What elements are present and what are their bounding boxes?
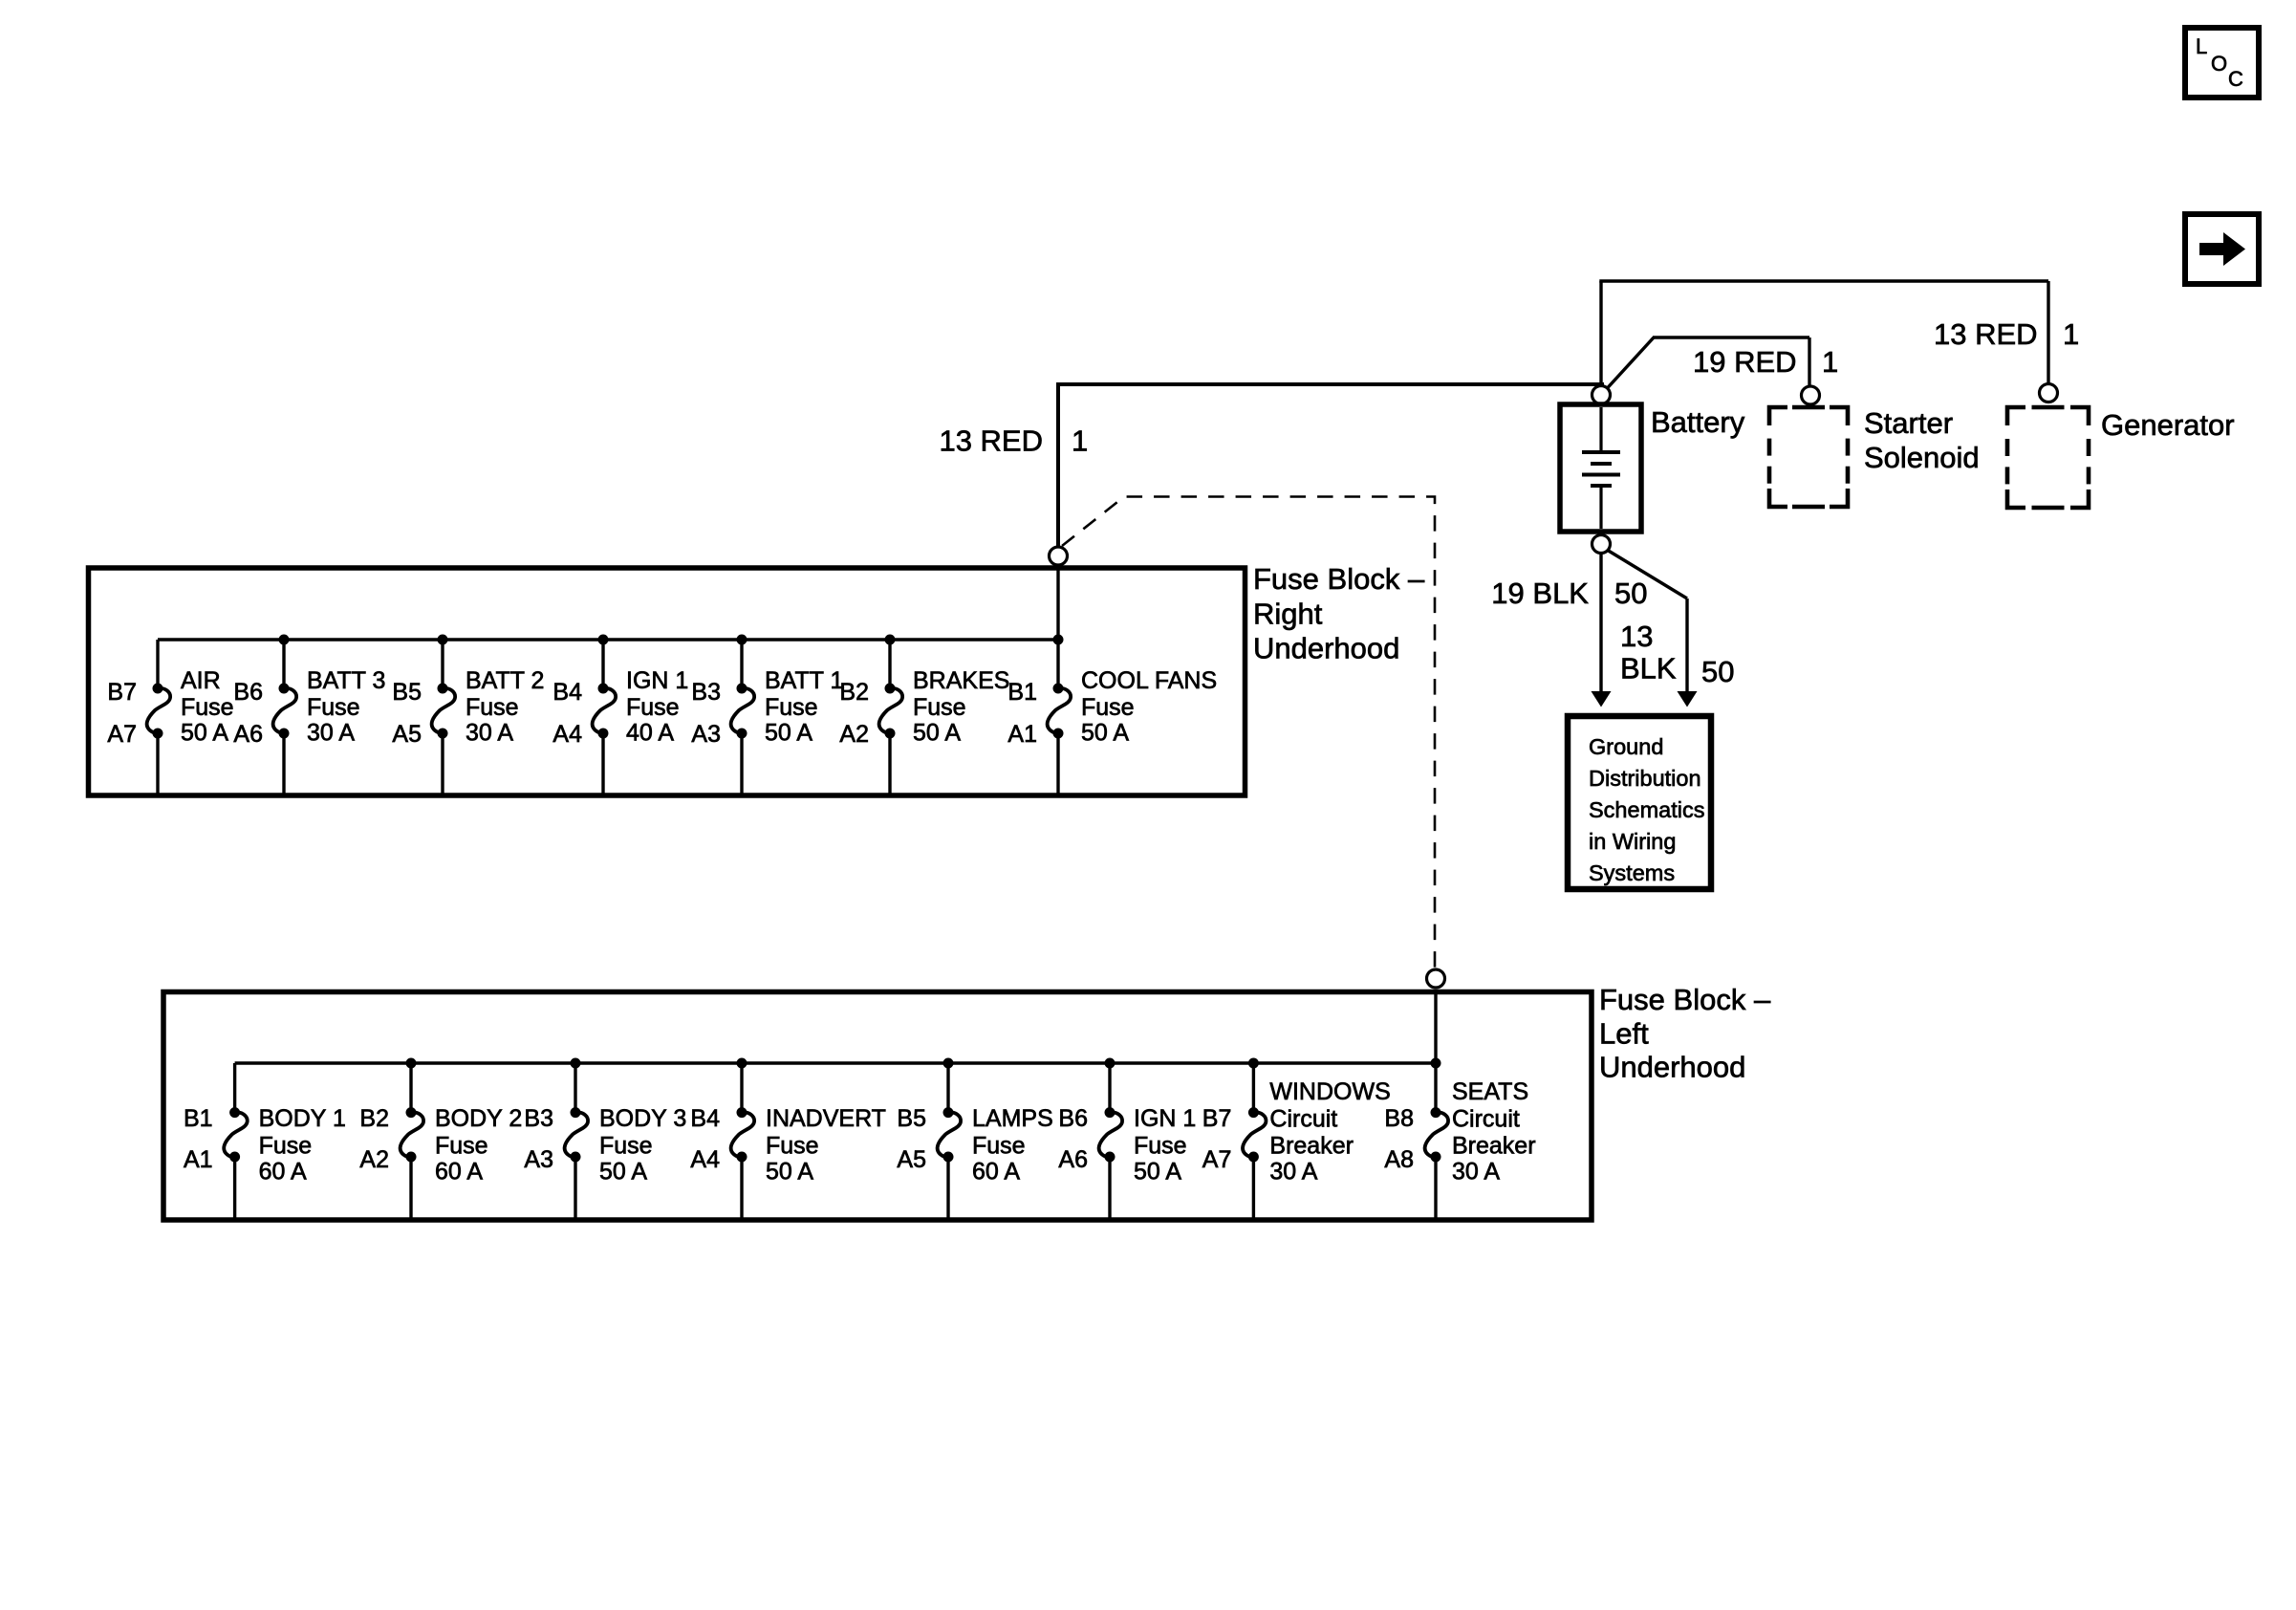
- svg-text:Schematics: Schematics: [1589, 797, 1704, 822]
- svg-text:BRAKES: BRAKES: [913, 667, 1009, 694]
- loc reference icon box: [2185, 28, 2259, 98]
- wire left block bus left drop: [233, 1063, 236, 1113]
- wire left block internal bus: [235, 1061, 1436, 1064]
- svg-text:A8: A8: [1384, 1146, 1414, 1173]
- fuse BATT 2 (B5/A5): [392, 635, 544, 794]
- wire right block internal bus: [158, 638, 1058, 641]
- svg-text:Fuse: Fuse: [599, 1133, 653, 1160]
- svg-text:50 A: 50 A: [765, 720, 812, 747]
- label ground distribution text: [1589, 734, 1704, 885]
- fuse BODY 1 (B1/A1): [184, 1105, 346, 1218]
- node generator terminal: [2040, 384, 2058, 402]
- battery symbol: [1582, 407, 1620, 529]
- svg-text:A1: A1: [1007, 721, 1037, 748]
- svg-text:Systems: Systems: [1589, 860, 1675, 885]
- label Generator: [2101, 408, 2235, 442]
- svg-text:50 A: 50 A: [766, 1159, 813, 1186]
- svg-text:1: 1: [2063, 317, 2079, 351]
- wire generator drop: [2047, 281, 2049, 383]
- svg-text:BODY 2: BODY 2: [435, 1105, 522, 1132]
- svg-text:Starter: Starter: [1864, 406, 1953, 440]
- svg-text:Underhood: Underhood: [1253, 632, 1399, 665]
- svg-text:BODY 3: BODY 3: [599, 1105, 686, 1132]
- svg-text:B1: B1: [1007, 679, 1037, 706]
- svg-text:Ground: Ground: [1589, 734, 1663, 759]
- fuse SEATS (B8/A8): [1384, 1058, 1535, 1219]
- svg-text:BLK: BLK: [1620, 652, 1677, 685]
- svg-text:1: 1: [1822, 345, 1838, 379]
- label 13 BLK 50: [1620, 620, 1734, 688]
- svg-text:50 A: 50 A: [1134, 1159, 1181, 1186]
- wire 13 BLK ground: [1685, 598, 1688, 692]
- svg-text:50: 50: [1614, 577, 1647, 610]
- svg-text:BODY 1: BODY 1: [259, 1105, 346, 1132]
- label Starter Solenoid: [1864, 406, 1980, 474]
- wire drop to right fuse block feed: [1056, 382, 1060, 547]
- svg-text:B5: B5: [392, 679, 422, 706]
- node left fuse block feed: [1427, 969, 1445, 988]
- svg-text:B2: B2: [839, 679, 869, 706]
- label 13 RED 1 (left): [939, 424, 1088, 458]
- wire right block feed drop: [1056, 566, 1059, 688]
- wire battery positive riser: [1599, 281, 1602, 385]
- svg-text:Right: Right: [1253, 597, 1323, 630]
- svg-text:30 A: 30 A: [1452, 1159, 1500, 1186]
- dashed link between fuse blocks: [1062, 497, 1435, 968]
- svg-text:30 A: 30 A: [1269, 1159, 1317, 1186]
- node battery positive terminal: [1592, 386, 1611, 404]
- svg-text:A6: A6: [1058, 1146, 1088, 1173]
- svg-text:B4: B4: [552, 679, 582, 706]
- svg-text:B6: B6: [1058, 1105, 1088, 1132]
- svg-text:Fuse: Fuse: [1081, 694, 1135, 721]
- svg-text:Circuit: Circuit: [1452, 1106, 1520, 1133]
- svg-text:1: 1: [1072, 424, 1088, 458]
- wire right block bus left drop: [156, 640, 159, 688]
- label Fuse Block Left Underhood: [1599, 983, 1771, 1084]
- svg-text:50 A: 50 A: [913, 720, 961, 747]
- svg-text:13: 13: [1620, 620, 1653, 653]
- svg-text:60 A: 60 A: [259, 1159, 307, 1186]
- wire 13 RED main bus to battery: [1058, 382, 1604, 386]
- wire battery to 19 RED diagonal: [1607, 337, 1654, 389]
- fuse BODY 2 (B2/A2): [359, 1058, 522, 1219]
- svg-text:A7: A7: [107, 721, 137, 748]
- wire 19 BLK ground: [1599, 554, 1602, 693]
- starter solenoid dashed box: [1769, 407, 1848, 507]
- svg-text:Fuse: Fuse: [766, 1133, 819, 1160]
- svg-text:INADVERT: INADVERT: [766, 1105, 886, 1132]
- label 19 BLK 50: [1491, 577, 1647, 610]
- fuse LAMPS (B5/A5): [897, 1058, 1052, 1219]
- svg-text:Fuse: Fuse: [913, 694, 966, 721]
- svg-text:COOL FANS: COOL FANS: [1081, 667, 1217, 694]
- svg-text:B7: B7: [107, 679, 137, 706]
- svg-text:AIR: AIR: [181, 667, 221, 694]
- battery box: [1560, 404, 1641, 532]
- svg-text:13 RED: 13 RED: [939, 424, 1043, 458]
- ground distribution schematics box: [1568, 716, 1711, 889]
- svg-text:in Wiring: in Wiring: [1589, 829, 1676, 854]
- wire starter solenoid drop: [1808, 337, 1810, 385]
- svg-text:A4: A4: [690, 1146, 720, 1173]
- fuse block right underhood box: [89, 568, 1245, 795]
- svg-text:Fuse: Fuse: [259, 1133, 313, 1160]
- arrow to ground schematics (19 BLK): [1592, 691, 1612, 707]
- svg-text:IGN 1: IGN 1: [1134, 1105, 1196, 1132]
- page navigation arrow box: [2185, 214, 2259, 284]
- label 19 RED 1: [1693, 345, 1838, 379]
- svg-text:Battery: Battery: [1651, 405, 1745, 439]
- svg-text:50 A: 50 A: [1081, 720, 1129, 747]
- svg-text:B2: B2: [359, 1105, 389, 1132]
- fuse BODY 3 (B3/A3): [524, 1058, 686, 1219]
- svg-text:Breaker: Breaker: [1452, 1133, 1536, 1160]
- svg-text:Fuse Block –: Fuse Block –: [1253, 562, 1425, 596]
- svg-text:Fuse: Fuse: [435, 1133, 488, 1160]
- label Battery: [1651, 405, 1745, 439]
- svg-text:A1: A1: [184, 1146, 213, 1173]
- svg-text:19 BLK: 19 BLK: [1491, 577, 1589, 610]
- svg-text:60 A: 60 A: [435, 1159, 483, 1186]
- svg-text:13 RED: 13 RED: [1934, 317, 2038, 351]
- node starter solenoid terminal: [1802, 386, 1820, 404]
- svg-text:50 A: 50 A: [181, 720, 228, 747]
- svg-text:Fuse: Fuse: [1134, 1133, 1187, 1160]
- fuse IGN 1 (B4/A4): [552, 635, 688, 794]
- wire left block feed drop: [1434, 991, 1437, 1113]
- wire 19 RED run: [1653, 336, 1809, 338]
- fuse WINDOWS (B7/A7): [1202, 1058, 1391, 1219]
- fuse BATT 1 (B3/A3): [691, 635, 843, 794]
- svg-text:O: O: [2211, 52, 2227, 76]
- svg-text:Fuse Block –: Fuse Block –: [1599, 983, 1771, 1016]
- wire top run to generator: [1599, 279, 2048, 282]
- fuse COOL FANS (B1/A1): [1007, 635, 1217, 794]
- svg-text:30 A: 30 A: [307, 720, 355, 747]
- svg-text:Generator: Generator: [2101, 408, 2235, 442]
- generator dashed box: [2007, 407, 2089, 508]
- wire 13 BLK diagonal: [1607, 550, 1687, 598]
- label Fuse Block Right Underhood: [1253, 562, 1425, 665]
- svg-text:LAMPS: LAMPS: [972, 1105, 1053, 1132]
- svg-text:BATT 1: BATT 1: [765, 667, 843, 694]
- svg-text:A3: A3: [691, 721, 721, 748]
- svg-text:19 RED: 19 RED: [1693, 345, 1797, 379]
- svg-text:Fuse: Fuse: [466, 694, 519, 721]
- svg-text:Circuit: Circuit: [1269, 1106, 1337, 1133]
- svg-text:SEATS: SEATS: [1452, 1078, 1528, 1105]
- fuse INADVERT (B4/A4): [690, 1058, 886, 1219]
- svg-text:Fuse: Fuse: [307, 694, 360, 721]
- svg-text:Fuse: Fuse: [972, 1133, 1026, 1160]
- fuse BATT 3 (B6/A6): [233, 635, 385, 794]
- svg-text:A2: A2: [359, 1146, 389, 1173]
- fuse AIR (B7/A7): [107, 667, 233, 794]
- fuse IGN 1 (B6/A6): [1058, 1058, 1196, 1219]
- svg-text:60 A: 60 A: [972, 1159, 1020, 1186]
- svg-text:L: L: [2196, 34, 2207, 58]
- node right fuse block feed: [1050, 547, 1068, 565]
- svg-text:A7: A7: [1202, 1146, 1232, 1173]
- svg-text:A3: A3: [524, 1146, 553, 1173]
- svg-text:50 A: 50 A: [599, 1159, 647, 1186]
- fuse block left underhood box: [163, 992, 1592, 1221]
- svg-text:B7: B7: [1202, 1105, 1232, 1132]
- svg-text:B8: B8: [1384, 1105, 1414, 1132]
- label 13 RED 1 (top right): [1934, 317, 2079, 351]
- svg-text:B6: B6: [233, 679, 263, 706]
- svg-text:BATT 2: BATT 2: [466, 667, 544, 694]
- svg-text:B3: B3: [524, 1105, 553, 1132]
- node battery negative terminal: [1592, 535, 1611, 554]
- svg-text:Fuse: Fuse: [626, 694, 680, 721]
- svg-text:Solenoid: Solenoid: [1864, 441, 1980, 474]
- svg-text:40 A: 40 A: [626, 720, 674, 747]
- svg-text:B1: B1: [184, 1105, 213, 1132]
- fuse BRAKES (B2/A2): [839, 635, 1009, 794]
- svg-text:Left: Left: [1599, 1016, 1649, 1050]
- svg-text:B4: B4: [690, 1105, 720, 1132]
- svg-text:B5: B5: [897, 1105, 926, 1132]
- svg-text:A6: A6: [233, 721, 263, 748]
- svg-text:50: 50: [1701, 655, 1734, 688]
- svg-text:Breaker: Breaker: [1269, 1133, 1354, 1160]
- svg-text:A5: A5: [392, 721, 422, 748]
- svg-text:A2: A2: [839, 721, 869, 748]
- svg-text:Distribution: Distribution: [1589, 766, 1701, 791]
- svg-text:A4: A4: [552, 721, 582, 748]
- svg-text:Underhood: Underhood: [1599, 1051, 1745, 1084]
- svg-text:30 A: 30 A: [466, 720, 513, 747]
- svg-text:WINDOWS: WINDOWS: [1269, 1078, 1390, 1105]
- svg-text:IGN 1: IGN 1: [626, 667, 688, 694]
- arrow to ground schematics (13 BLK): [1678, 691, 1698, 707]
- svg-text:A5: A5: [897, 1146, 926, 1173]
- svg-text:Fuse: Fuse: [765, 694, 818, 721]
- svg-text:C: C: [2228, 67, 2243, 91]
- svg-text:Fuse: Fuse: [181, 694, 234, 721]
- svg-text:B3: B3: [691, 679, 721, 706]
- svg-text:BATT 3: BATT 3: [307, 667, 385, 694]
